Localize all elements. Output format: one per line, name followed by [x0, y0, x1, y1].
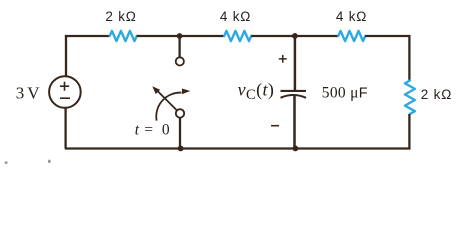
junction dot bottom switch branch [178, 146, 184, 152]
wire between R1 and R2 [137, 35, 225, 37]
capacitor C1 bottom plate curved [281, 95, 307, 98]
svg-text:t: t [135, 121, 140, 138]
switch motion arc [156, 93, 181, 121]
wire bottom [66, 147, 409, 149]
wire capacitor branch upper [294, 36, 297, 90]
wire switch branch lower [179, 118, 181, 149]
switch motion arrowhead [182, 89, 190, 95]
voltage source minus sign [60, 97, 70, 99]
svg-text:500 μF: 500 μF [322, 85, 368, 102]
switch blade arrowhead [152, 86, 160, 94]
voltage source plus sign [60, 82, 69, 91]
svg-text:4 kΩ: 4 kΩ [220, 9, 251, 24]
wire switch branch upper [178, 36, 180, 57]
svg-text:3 V: 3 V [16, 83, 40, 102]
voltage source V1 circle [49, 76, 81, 108]
node A junction dot top of switch branch [177, 33, 183, 39]
stray mark bottom left 2 [48, 160, 51, 163]
svg-text:2 kΩ: 2 kΩ [421, 87, 452, 102]
node B junction dot capacitor branch top [292, 33, 298, 39]
svg-text:4 kΩ: 4 kΩ [336, 9, 367, 24]
plus sign above capacitor [279, 55, 287, 63]
svg-text:vC(t): vC(t) [238, 79, 275, 103]
wire left lower segment [64, 108, 66, 149]
resistor R3 4 kohm [338, 31, 365, 41]
switch blade [158, 91, 177, 110]
resistor R1 2 kohm [110, 31, 137, 41]
switch S1 top terminal circle [176, 57, 184, 65]
wire top left segment [66, 36, 110, 37]
resistor R2 4 kohm [224, 31, 251, 41]
capacitor C1 top plate [281, 90, 307, 92]
svg-text:0: 0 [162, 121, 170, 138]
wire left upper segment [65, 36, 67, 77]
stray mark bottom left 1 [5, 161, 8, 164]
svg-text:2 kΩ: 2 kΩ [105, 9, 136, 24]
junction dot bottom capacitor branch [293, 146, 299, 152]
minus sign below capacitor [271, 125, 279, 127]
wire between R2 and R3 [251, 35, 338, 37]
wire capacitor branch lower [293, 95, 296, 148]
resistor R4 2 kohm vertical [405, 81, 415, 115]
switch S1 bottom terminal circle [176, 109, 184, 117]
svg-text:=: = [144, 121, 153, 138]
wire right lower segment [408, 114, 410, 149]
wire top right segment with corner [365, 36, 409, 81]
